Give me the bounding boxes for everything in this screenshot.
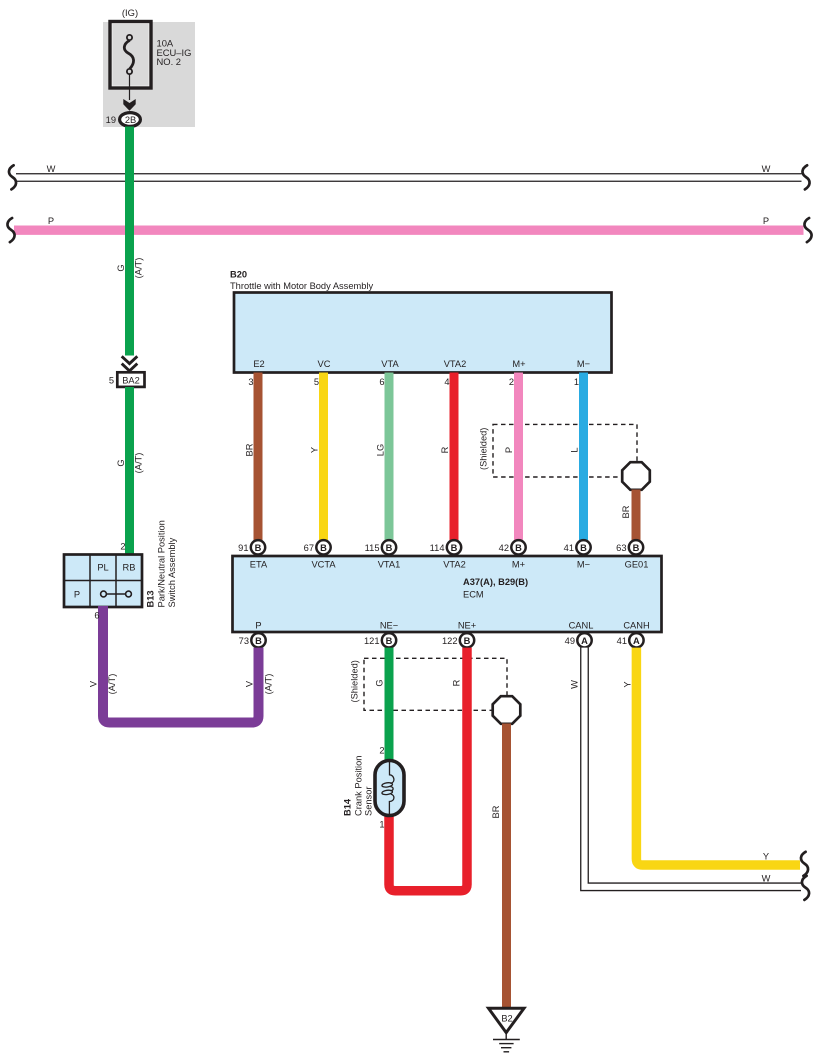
switch B13 Park/Neutral Position Switch Assembly — [64, 520, 177, 607]
svg-text:CANL: CANL — [569, 621, 594, 631]
svg-text:G: G — [116, 264, 126, 271]
wire G from 2B to BA2 — [116, 127, 144, 372]
svg-text:(A/T): (A/T) — [107, 674, 117, 695]
svg-text:B: B — [580, 543, 587, 553]
svg-text:A37(A), B29(B): A37(A), B29(B) — [463, 577, 528, 587]
svg-text:Y: Y — [623, 681, 633, 687]
svg-text:(IG): (IG) — [122, 7, 138, 18]
wire fuse to connector 2B — [129, 74, 131, 100]
svg-text:B20: B20 — [230, 270, 247, 280]
svg-text:49: 49 — [565, 636, 575, 646]
throttle body B20 box — [234, 293, 612, 373]
svg-text:VTA2: VTA2 — [444, 359, 467, 369]
svg-text:E2: E2 — [253, 359, 264, 369]
svg-text:2B: 2B — [125, 115, 136, 125]
svg-text:VTA2: VTA2 — [443, 560, 466, 570]
svg-text:41: 41 — [564, 543, 574, 553]
svg-text:PL: PL — [97, 563, 108, 573]
bus P (pink wire) — [7, 216, 811, 242]
svg-text:VCTA: VCTA — [311, 560, 336, 570]
fuse block background — [103, 22, 195, 127]
svg-text:P: P — [74, 590, 80, 600]
svg-text:Switch Assembly: Switch Assembly — [167, 537, 177, 607]
svg-text:(Shielded): (Shielded) — [350, 660, 360, 702]
svg-text:122: 122 — [442, 636, 458, 646]
inline connector chevrons — [120, 356, 139, 372]
wire R VTA2 — [440, 373, 454, 541]
wire W CANL — [570, 648, 810, 900]
svg-text:5: 5 — [109, 376, 114, 386]
svg-text:R: R — [440, 446, 450, 453]
wire G from BA2 to B13 — [116, 387, 144, 554]
wire BR shield to ground — [491, 724, 507, 1009]
svg-text:VTA: VTA — [381, 359, 399, 369]
connector circle B pin 114 VTA2 — [430, 540, 462, 554]
svg-text:G: G — [116, 459, 126, 466]
svg-text:B: B — [255, 636, 262, 646]
shield octagon lower — [493, 696, 521, 724]
svg-text:Y: Y — [763, 852, 769, 862]
svg-text:B: B — [386, 636, 393, 646]
wire BR shield to GE01 — [621, 490, 636, 541]
svg-text:41: 41 — [617, 636, 627, 646]
svg-text:Throttle with Motor Body Assem: Throttle with Motor Body Assembly — [230, 281, 373, 291]
connector circle B pin 67 VCTA — [304, 540, 331, 554]
svg-text:1: 1 — [574, 377, 579, 387]
svg-text:A: A — [633, 636, 640, 646]
svg-text:V: V — [89, 680, 99, 687]
svg-text:6: 6 — [94, 611, 99, 621]
svg-text:GE01: GE01 — [625, 560, 649, 570]
svg-text:1: 1 — [379, 820, 384, 830]
svg-text:VTA1: VTA1 — [378, 560, 401, 570]
fuse 10A ECU-IG NO.2 — [110, 22, 151, 89]
svg-text:P: P — [763, 216, 769, 226]
svg-text:M−: M− — [577, 359, 590, 369]
wire R NE+ to crank sensor — [379, 648, 467, 891]
svg-text:BA2: BA2 — [122, 376, 140, 386]
svg-text:Park/Neutral Position: Park/Neutral Position — [157, 520, 167, 607]
svg-text:B: B — [633, 543, 640, 553]
svg-text:B: B — [451, 543, 458, 553]
wire V from B13 pin 6 to ECM pin 73 — [89, 606, 274, 723]
svg-text:(A/T): (A/T) — [134, 258, 144, 279]
svg-text:B: B — [320, 543, 327, 553]
svg-text:CANH: CANH — [623, 621, 649, 631]
shield octagon upper — [622, 462, 650, 490]
connector circle B pin 42 M+ — [499, 540, 526, 554]
bus W (white wire) — [9, 164, 810, 189]
svg-text:114: 114 — [430, 543, 445, 553]
svg-text:NE+: NE+ — [458, 621, 476, 631]
svg-text:Y: Y — [310, 447, 320, 453]
svg-text:B: B — [515, 543, 522, 553]
svg-text:M+: M+ — [512, 359, 525, 369]
svg-text:42: 42 — [499, 543, 509, 553]
connector circle A pin 41 CANH — [617, 633, 644, 647]
svg-text:(A/T): (A/T) — [264, 674, 274, 695]
svg-text:5: 5 — [314, 377, 319, 387]
connector circle B pin 41 M- — [564, 540, 591, 554]
svg-text:B13: B13 — [146, 590, 156, 607]
svg-text:W: W — [762, 874, 771, 884]
svg-text:W: W — [570, 680, 580, 689]
svg-text:115: 115 — [365, 543, 380, 553]
svg-text:4: 4 — [444, 377, 449, 387]
connector circle B pin 121 NE- — [364, 633, 396, 647]
svg-text:V: V — [245, 680, 255, 687]
wire Y CANH — [623, 648, 809, 876]
svg-text:ETA: ETA — [250, 560, 268, 570]
svg-text:BR: BR — [245, 443, 255, 456]
svg-text:RB: RB — [123, 563, 136, 573]
svg-text:19: 19 — [106, 115, 116, 125]
shield dashed box upper — [479, 424, 638, 477]
wire LG VTA — [376, 373, 390, 541]
svg-text:NO. 2: NO. 2 — [157, 56, 182, 67]
B20 pin numbers — [248, 377, 579, 387]
svg-text:(A/T): (A/T) — [134, 453, 144, 474]
connector circle B pin 73 P — [239, 633, 266, 647]
svg-text:73: 73 — [239, 636, 249, 646]
svg-text:2: 2 — [120, 542, 125, 552]
connector BA2 pin 5 — [109, 372, 145, 387]
svg-text:M+: M+ — [512, 560, 525, 570]
svg-text:6: 6 — [379, 377, 384, 387]
shield dashed box lower — [350, 658, 508, 710]
wire P M+ — [504, 373, 519, 541]
connector circle A pin 49 CANL — [565, 633, 592, 647]
connector circle B pin 63 GE01 — [616, 540, 643, 554]
svg-text:P: P — [255, 621, 261, 631]
svg-text:ECM: ECM — [463, 590, 484, 600]
crank position sensor B14 — [343, 756, 405, 816]
connector circle B pin 122 NE+ — [442, 633, 474, 647]
svg-text:91: 91 — [238, 543, 248, 553]
svg-text:B: B — [464, 636, 471, 646]
svg-text:B14: B14 — [343, 798, 353, 816]
ECM box A37(A), B29(B) — [233, 556, 662, 632]
svg-text:63: 63 — [616, 543, 626, 553]
svg-text:B2: B2 — [501, 1014, 512, 1024]
svg-text:NE−: NE− — [380, 621, 398, 631]
svg-text:3: 3 — [248, 377, 253, 387]
connector 2B pin 19 — [106, 113, 141, 127]
svg-text:BR: BR — [621, 505, 631, 518]
svg-text:(Shielded): (Shielded) — [479, 428, 489, 470]
svg-text:2: 2 — [379, 746, 384, 756]
ground B2 — [489, 1008, 525, 1052]
wire L M- — [570, 373, 584, 541]
svg-text:VC: VC — [318, 359, 331, 369]
wire G NE- to crank sensor — [375, 648, 390, 761]
wire Y VC — [310, 373, 324, 541]
svg-text:B: B — [255, 543, 262, 553]
svg-text:BR: BR — [491, 805, 501, 818]
svg-text:P: P — [48, 216, 54, 226]
svg-text:W: W — [762, 164, 771, 174]
svg-text:LG: LG — [376, 444, 386, 456]
svg-text:G: G — [375, 679, 385, 686]
svg-text:P: P — [504, 447, 514, 453]
svg-text:2: 2 — [509, 377, 514, 387]
svg-text:B: B — [386, 543, 393, 553]
connector circle B pin 91 ETA — [238, 540, 265, 554]
svg-text:67: 67 — [304, 543, 314, 553]
svg-text:121: 121 — [364, 636, 380, 646]
svg-text:Crank Position: Crank Position — [354, 756, 364, 816]
svg-text:W: W — [47, 164, 56, 174]
arrowhead — [123, 99, 135, 111]
svg-text:L: L — [570, 447, 580, 452]
connector circle B pin 115 VTA1 — [365, 540, 397, 554]
svg-text:M−: M− — [577, 560, 590, 570]
wire BR E2 — [245, 373, 259, 541]
svg-text:Sensor: Sensor — [364, 787, 374, 816]
svg-text:A: A — [581, 636, 588, 646]
svg-text:R: R — [452, 679, 462, 686]
